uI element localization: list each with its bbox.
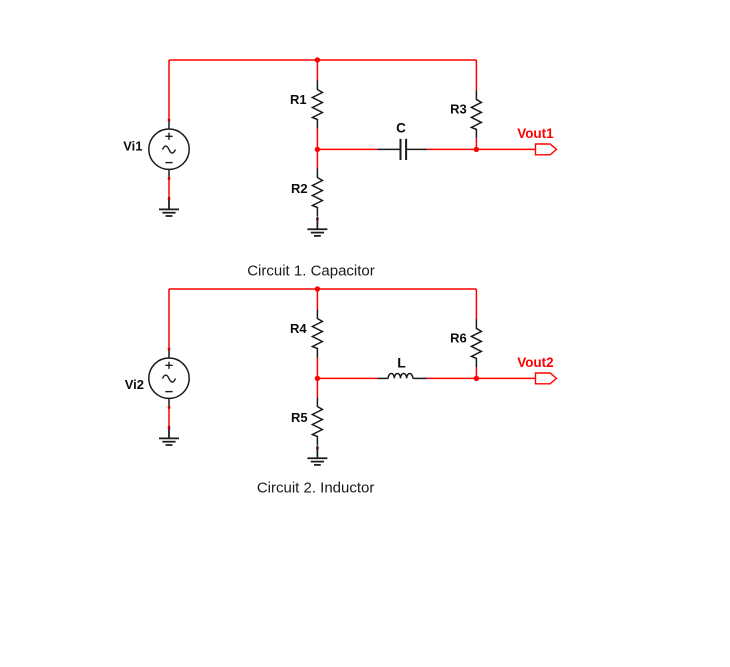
svg-text:Vout2: Vout2 (517, 355, 554, 370)
output port Vout2 (536, 373, 557, 384)
junction node: top rail / R4 (315, 286, 320, 291)
wire: mid node to inductor (317, 377, 377, 379)
svg-text:R4: R4 (290, 321, 307, 336)
voltage source Vi2 (149, 349, 189, 407)
wire: R3 to out node (475, 138, 477, 149)
svg-text:R6: R6 (450, 331, 467, 346)
wire: R1 to mid node (316, 129, 318, 150)
ground under Vi1 (159, 197, 179, 216)
resistor R6 (471, 319, 481, 367)
resistor R4 (312, 310, 322, 358)
wire: R6 to out node (475, 367, 477, 378)
wire: mid node to R2 (316, 149, 318, 168)
resistor R1 (312, 81, 322, 129)
svg-text:Vout1: Vout1 (517, 126, 554, 141)
wire: out node to port Vout2 (476, 377, 535, 379)
wire: top rail to R1 (316, 60, 318, 81)
wire: right drop to R3 (475, 60, 477, 91)
svg-text:C: C (396, 121, 406, 136)
svg-text:R5: R5 (291, 410, 308, 425)
svg-text:R3: R3 (450, 102, 467, 117)
wire: Vi1 to ground (168, 178, 170, 199)
resistor R5 (312, 398, 322, 446)
svg-text:Circuit 2. Inductor: Circuit 2. Inductor (257, 479, 375, 496)
inductor L (377, 373, 427, 378)
pin dot Vi1 top (168, 119, 171, 122)
wire: right drop to R6 (475, 289, 477, 320)
pin dot ground2 (168, 427, 171, 430)
junction node: top rail / R1 (315, 57, 320, 62)
wire: mid node to capacitor (317, 148, 377, 150)
wire: Vi2 to ground (168, 407, 170, 428)
svg-text:Vi2: Vi2 (125, 377, 144, 392)
pin dot Vi2 bottom (168, 406, 171, 409)
ground under R5 (307, 446, 327, 465)
junction node: out / R3 (474, 147, 479, 152)
wire: out node to port Vout1 (476, 148, 535, 150)
wire: capacitor to out node (427, 148, 476, 150)
pin dot Vi2 top (168, 348, 171, 351)
svg-text:Circuit 1. Capacitor: Circuit 1. Capacitor (247, 263, 375, 280)
resistor R3 (471, 90, 481, 138)
wire: top rail circuit 2 (169, 288, 476, 290)
wire: mid node to R5 (316, 378, 318, 397)
wire: inductor to out node (427, 377, 476, 379)
capacitor C (377, 139, 427, 160)
ground under Vi2 (159, 426, 179, 445)
wire: left drop to Vi2 (168, 289, 170, 349)
resistor R2 (312, 169, 322, 217)
pin dot Vi1 bottom (168, 177, 171, 180)
junction node: mid rail / R1-R2 (315, 147, 320, 152)
wire: top rail to R4 (316, 289, 318, 310)
ground under R2 (307, 217, 327, 236)
voltage source Vi1 (149, 120, 189, 178)
junction node: out / R6 (474, 376, 479, 381)
wire: left drop to Vi1 (168, 60, 170, 120)
svg-text:Vi1: Vi1 (123, 138, 142, 153)
svg-text:R1: R1 (290, 92, 307, 107)
wire: top rail circuit 1 (169, 59, 476, 61)
svg-text:L: L (397, 355, 406, 371)
wire: R4 to mid node (316, 358, 318, 379)
pin dot ground1 (168, 198, 171, 201)
junction node: mid rail / R4-R5 (315, 376, 320, 381)
output port Vout1 (536, 144, 557, 155)
pin dot R5 bottom (316, 447, 319, 450)
svg-text:R2: R2 (291, 181, 308, 196)
pin dot R2 bottom (316, 218, 319, 221)
